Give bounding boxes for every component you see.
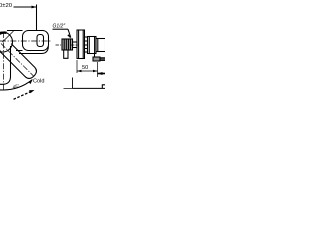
mini neck [85, 37, 88, 52]
svg-text:Cold: Cold [33, 79, 45, 85]
centerline stub left [56, 44, 63, 46]
body block B [88, 37, 97, 54]
dimension line top [14, 6, 37, 8]
leader line [68, 29, 71, 37]
centerline through neck [71, 44, 79, 46]
pivot thick arc [0, 33, 7, 52]
dashed motion arrow [14, 91, 32, 99]
baseline [64, 87, 73, 89]
block C inner line [97, 39, 99, 52]
block B inner line [89, 37, 94, 54]
body block C [96, 39, 106, 52]
dashed motion arrowhead [29, 90, 35, 93]
thick arrowhead [98, 72, 103, 75]
extension line vertical [36, 5, 38, 31]
lever underside edge [19, 47, 48, 54]
thick arrow right edge [98, 73, 106, 75]
rotation arc arrowhead [29, 79, 33, 84]
svg-text:0±20: 0±20 [0, 3, 13, 9]
thread block [62, 39, 73, 50]
leader underline [53, 28, 69, 30]
dim arrow left [77, 70, 82, 72]
outlet bar [100, 58, 106, 61]
neck [73, 42, 78, 48]
flange disc [77, 30, 85, 59]
centerline horizontal [0, 40, 51, 42]
lever inner end cap [37, 35, 44, 47]
outlet rect [93, 57, 100, 61]
flange inner line [79, 30, 84, 59]
ext line right [97, 62, 99, 77]
centerline vertical [3, 32, 5, 90]
centerline 45deg up [3, 31, 14, 42]
lever rotated down outline [0, 46, 11, 84]
baseline tick [102, 85, 105, 89]
dim arrow right [93, 70, 98, 72]
centerline 45deg [1, 44, 34, 77]
lever rotated 45deg outline [0, 41, 39, 81]
dimension arrow [32, 6, 37, 9]
riser ext line [72, 78, 74, 89]
thread lines [64, 39, 70, 50]
step down [94, 54, 96, 58]
ext line left [76, 60, 78, 73]
pivot circle [0, 32, 13, 52]
leader arrowhead [67, 34, 71, 38]
svg-text:50: 50 [82, 65, 88, 71]
lever handle outline (horizontal position) [7, 31, 23, 51]
mini neck lines [85, 41, 88, 49]
dim line 50 [77, 70, 98, 72]
stem below [64, 50, 68, 58]
rotation arc 45deg [0, 80, 32, 90]
